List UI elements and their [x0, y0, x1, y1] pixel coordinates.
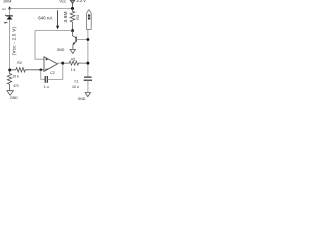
svg-text:10 u: 10 u — [72, 85, 79, 89]
svg-text:GND: GND — [10, 96, 18, 100]
wire mid rail — [35, 30, 73, 32]
svg-text:GND: GND — [57, 48, 65, 52]
wire op-amp output — [57, 62, 62, 64]
resistor R3 3.9M vertical — [70, 9, 75, 31]
node dot base — [87, 38, 90, 41]
svg-text:R1: R1 — [71, 58, 75, 62]
value 2.5 V — [4, 22, 8, 24]
wire C1 to ground — [87, 80, 89, 92]
ground (emitter) — [70, 49, 75, 53]
svg-text:GND: GND — [78, 97, 86, 100]
svg-text:R3: R3 — [76, 15, 80, 20]
resistor R4 470 vertical — [7, 70, 11, 91]
node dot output — [61, 62, 64, 65]
svg-text:U1: U1 — [2, 7, 6, 11]
ground (output filter) — [85, 93, 90, 97]
resistor R2 10k horizontal — [10, 68, 45, 72]
transistor Q1 — [73, 31, 88, 50]
node dot at top-left corner — [9, 6, 11, 8]
svg-text:C2: C2 — [50, 71, 55, 75]
node dot inverting input — [39, 68, 42, 71]
capacitor C2 1u — [45, 76, 47, 83]
diode U1 (2.5V reference, cathode up) — [5, 15, 13, 20]
power flag 3.3V — [70, 0, 75, 3]
probe B1 capsule — [87, 9, 92, 29]
op-amp U2 — [44, 57, 57, 72]
svg-text:Vcc: Vcc — [59, 0, 65, 4]
ground (R4) — [7, 91, 13, 96]
svg-text:C1: C1 — [74, 79, 78, 83]
resistor R1 1k horizontal — [63, 61, 88, 65]
node dot R2/R4 — [8, 69, 11, 72]
wire corner down to diode — [9, 9, 11, 16]
wire riser to op-amp + input — [35, 31, 44, 60]
svg-text:640 nA: 640 nA — [38, 16, 52, 21]
node dot vcc — [71, 7, 74, 10]
svg-text:1004: 1004 — [3, 0, 11, 4]
svg-text:3.3 V: 3.3 V — [76, 0, 86, 3]
wire left rail — [9, 20, 11, 71]
svg-text:R2: R2 — [17, 61, 21, 65]
node dot R3 bottom — [71, 29, 74, 32]
current arrow — [57, 10, 59, 26]
wire top rail — [10, 8, 73, 10]
capacitor C1 10u — [84, 77, 92, 80]
background — [0, 0, 100, 100]
svg-text:10 k: 10 k — [12, 74, 19, 78]
svg-text:470: 470 — [13, 84, 19, 88]
svg-text:1 u: 1 u — [44, 85, 49, 89]
svg-text:(Vcc - 2.5 V): (Vcc - 2.5 V) — [12, 26, 17, 55]
wire C2 right leg — [47, 63, 63, 79]
svg-text:1 k: 1 k — [71, 68, 76, 72]
wire right rail — [87, 29, 89, 77]
node dot output filter — [86, 62, 89, 65]
svg-text:3.9M: 3.9M — [63, 11, 69, 22]
wire C2 left leg — [41, 70, 45, 80]
